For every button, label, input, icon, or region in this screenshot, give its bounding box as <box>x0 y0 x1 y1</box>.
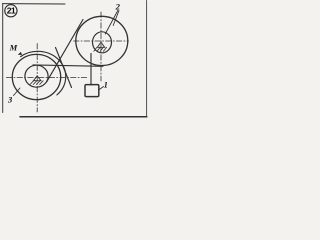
problem number badge circle <box>5 5 17 17</box>
pulley 2 inner circle <box>93 32 112 53</box>
svg-text:21: 21 <box>7 6 16 16</box>
svg-text:1: 1 <box>104 79 108 89</box>
belt line lower (flat tangent) <box>33 65 103 66</box>
pulley 3 horizontal centerline <box>6 77 88 79</box>
border frame right <box>146 1 148 118</box>
pulley 2 vertical centerline <box>100 12 102 81</box>
svg-text:2: 2 <box>115 2 121 12</box>
belt line lower (crossing) <box>56 48 72 88</box>
leader line label 2 to rim <box>113 11 119 26</box>
leader line label 2 to inner circle <box>105 11 118 35</box>
pulley 3 inner circle <box>25 65 48 87</box>
moment M arc <box>21 51 66 95</box>
cord of load 1 <box>90 54 92 86</box>
pulley 3 big circle <box>12 54 60 99</box>
pivot triangle pulley 3 <box>33 76 41 81</box>
border frame top <box>3 3 65 5</box>
pivot hatching pulley 3 <box>30 81 43 85</box>
border frame bottom <box>20 116 147 118</box>
belt line upper (steep) <box>47 20 83 82</box>
border frame left <box>2 3 4 112</box>
pivot hatching pulley 2 <box>94 47 107 51</box>
leader line label 1 <box>99 87 104 90</box>
pivot triangle pulley 2 <box>97 42 104 47</box>
svg-text:M: M <box>9 43 18 53</box>
moment M arrowhead <box>18 52 22 55</box>
load 1 square <box>85 85 99 97</box>
pulley 2 horizontal centerline <box>74 40 129 42</box>
svg-text:3: 3 <box>7 94 13 104</box>
pulley 2 big circle <box>76 16 128 65</box>
leader line label 3 <box>14 88 21 96</box>
pulley 3 vertical centerline <box>36 44 38 113</box>
